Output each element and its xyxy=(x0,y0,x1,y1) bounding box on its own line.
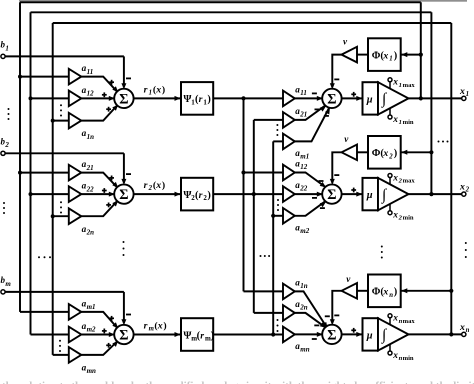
minus sign nu row 2 xyxy=(334,174,339,176)
node x2min terminal xyxy=(388,204,392,215)
svg-text:1: 1 xyxy=(389,56,392,63)
wire x1 bus to amp a21 xyxy=(18,171,69,175)
wire x1 bus to amp am1 xyxy=(20,311,69,313)
ellipsis middle channel xyxy=(260,255,271,257)
svg-text:m1: m1 xyxy=(87,303,96,311)
wire Phi row 1 to nu xyxy=(357,54,368,56)
svg-text:m: m xyxy=(149,326,154,333)
svg-text:x: x xyxy=(392,78,398,88)
svg-text:11: 11 xyxy=(87,68,94,76)
svg-text:mn: mn xyxy=(300,346,309,354)
wire right vertical xn feedback xyxy=(450,23,452,334)
node bm input terminal xyxy=(1,290,124,294)
label bm xyxy=(1,275,12,288)
label r1(x) xyxy=(144,84,166,96)
label Psim(rm) xyxy=(183,330,214,342)
minus sign a11 xyxy=(312,92,317,94)
wire left vertical bus x2 xyxy=(30,12,32,334)
wire x1 bus to amp a11 xyxy=(18,75,69,79)
svg-text:Σ: Σ xyxy=(327,327,336,343)
wire Psi2 output to a22 right xyxy=(213,193,283,195)
node junction x2/right vertical xyxy=(429,192,433,196)
block mu row 2 xyxy=(363,178,379,210)
svg-text:22: 22 xyxy=(86,185,95,193)
label a2n right xyxy=(295,299,308,312)
wire middle vertical v3 (Psim) xyxy=(272,141,274,334)
svg-text:x: x xyxy=(155,180,161,191)
svg-text:Σ: Σ xyxy=(327,91,336,107)
svg-text:n: n xyxy=(466,327,470,334)
ellipsis left inputs b1-b2 xyxy=(8,108,10,120)
svg-text:21: 21 xyxy=(86,164,94,172)
label a2n left xyxy=(82,224,95,237)
svg-text:mn: mn xyxy=(87,367,96,375)
wire am2 into summer xyxy=(295,201,327,216)
wire x2 bus to amp a22 xyxy=(29,192,69,196)
svg-text:21: 21 xyxy=(299,111,307,119)
wire x2 bus to amp a12 xyxy=(29,96,69,100)
amplifier a2n (left) xyxy=(69,208,82,224)
label x2 xyxy=(459,182,470,194)
ellipsis left amps groupm xyxy=(59,340,61,352)
label x2max xyxy=(392,173,415,184)
wire Psi1 output to a11 right xyxy=(213,97,283,99)
label a1n left xyxy=(82,128,95,141)
svg-text:max: max xyxy=(403,318,416,325)
amplifier a1n (left) xyxy=(69,113,82,129)
plus sign mu input row 2 xyxy=(351,188,356,193)
svg-text:22: 22 xyxy=(299,185,308,193)
ellipsis output column xyxy=(465,242,467,258)
wire left vertical bus x1 xyxy=(19,2,21,312)
svg-text:n: n xyxy=(389,292,393,299)
amplifier a22 (right) xyxy=(283,186,295,202)
wire top feedback bus 2 (x2) xyxy=(31,11,432,13)
svg-text:): ) xyxy=(211,330,214,341)
svg-text:m1: m1 xyxy=(300,153,309,161)
label Psi2(r2) xyxy=(183,190,210,202)
minus sign a2n xyxy=(314,324,319,326)
label amn right xyxy=(295,341,309,354)
ellipsis integrator column xyxy=(381,246,383,259)
svg-text:2: 2 xyxy=(465,187,470,194)
wire xn feedback into Phi xyxy=(401,288,454,293)
wire middle vertical v1 (Psi1) xyxy=(243,98,245,291)
svg-text:μ: μ xyxy=(366,94,373,105)
wire Phi row n to nu xyxy=(357,290,368,292)
wire am2 output to summer xyxy=(81,332,115,337)
svg-text:1: 1 xyxy=(399,119,402,126)
svg-text:1n: 1n xyxy=(87,133,95,141)
wire b2 to summer (minus) xyxy=(121,153,126,185)
node junction v1/a12 tap xyxy=(241,170,245,174)
node x2 output terminal xyxy=(462,192,466,196)
minus sign amn xyxy=(312,338,317,340)
svg-text:x: x xyxy=(459,86,465,97)
wire middle vertical v2 (Psi2) xyxy=(253,120,255,313)
svg-text:x: x xyxy=(382,287,388,298)
svg-text:): ) xyxy=(162,84,165,95)
wire a11 into summer xyxy=(295,96,323,101)
svg-text:2n: 2n xyxy=(299,304,308,312)
svg-text:the solution to the problem by: the solution to the problem by the modif… xyxy=(2,380,474,384)
wire bm to summer (minus) xyxy=(121,292,126,325)
label a21 left xyxy=(82,159,94,172)
label xn xyxy=(459,322,470,334)
block Phi(xn) xyxy=(368,275,401,308)
svg-text:m2: m2 xyxy=(87,326,96,334)
label nu row 2 xyxy=(344,134,349,144)
label a21 right xyxy=(295,106,307,119)
label a22 right xyxy=(295,180,308,193)
amplifier a22 (left) xyxy=(69,186,82,202)
svg-text:1n: 1n xyxy=(300,282,308,290)
amplifier am1 (right) xyxy=(283,134,295,150)
plus sign a21 xyxy=(109,176,114,181)
label am1 left xyxy=(82,299,96,312)
label x1max xyxy=(392,78,415,89)
minus sign b2 input xyxy=(126,173,131,175)
minus sign nu row n xyxy=(334,314,339,316)
node x2max terminal xyxy=(388,174,392,185)
svg-text:x: x xyxy=(392,115,398,125)
minus sign a21 xyxy=(315,108,320,110)
svg-text:1: 1 xyxy=(399,82,402,89)
label mu row 1 xyxy=(366,94,373,105)
op-amp summer U2 (left sigma) xyxy=(114,184,133,203)
svg-text:1: 1 xyxy=(466,91,469,98)
svg-text:r: r xyxy=(199,190,203,201)
svg-text:min: min xyxy=(403,215,414,222)
block Psi2 xyxy=(181,178,213,211)
amplifier a2n (right) xyxy=(283,305,295,321)
label Phi(x1) xyxy=(372,51,397,63)
svg-text:x: x xyxy=(392,211,398,221)
svg-text:x: x xyxy=(392,351,398,361)
wire v3 corner to amp am1 right xyxy=(273,140,283,142)
wire a12 into summer xyxy=(295,173,327,188)
minus sign am2 xyxy=(320,207,325,209)
wire top feedback bus 3 (xn) xyxy=(53,22,452,24)
op-amp summer U1 (left sigma) xyxy=(114,89,133,108)
svg-text:): ) xyxy=(207,190,210,201)
wire nu row 1 to summer (minus) xyxy=(330,55,342,90)
svg-text:Σ: Σ xyxy=(119,91,128,107)
wire a2n output to summer xyxy=(81,200,118,216)
block Phi(x2) xyxy=(368,136,401,169)
svg-text:m2: m2 xyxy=(300,227,309,235)
svg-text:): ) xyxy=(162,180,165,191)
wire r1 summer to Psi box xyxy=(134,96,181,101)
wire xn bus to amp amn xyxy=(53,354,69,356)
svg-text:r: r xyxy=(144,180,148,191)
wire a11 output to summer xyxy=(81,77,118,93)
svg-text:2: 2 xyxy=(388,153,393,160)
wire integrator output x2 xyxy=(409,193,462,195)
plus sign a12 xyxy=(102,92,107,97)
ellipsis left sigma column xyxy=(123,241,125,256)
wire b1 to summer (minus) xyxy=(121,56,126,89)
node junction Psi2/v2 xyxy=(252,192,256,196)
ellipsis right amps coln xyxy=(277,319,279,332)
node x1 output terminal xyxy=(462,96,466,100)
wire integrator output x1 xyxy=(409,97,462,99)
wire v2 corner to amp a2n right xyxy=(254,312,283,314)
plus sign a1n xyxy=(106,107,111,112)
wire rm summer to Psi box xyxy=(134,332,181,337)
amplifier amn (right) xyxy=(283,327,295,343)
op-amp summer right sigma row 1 xyxy=(322,89,341,108)
svg-text:Σ: Σ xyxy=(119,187,128,203)
label rm(x) xyxy=(144,320,167,332)
amplifier a12 (right) xyxy=(283,165,295,181)
amplifier a11 (left) xyxy=(69,69,82,85)
label a11 right xyxy=(295,84,307,97)
ellipsis left amps group1 xyxy=(60,104,62,116)
svg-text:r: r xyxy=(199,94,203,105)
wire amn into summer xyxy=(295,332,323,337)
wire right vertical x2 feedback xyxy=(430,12,432,194)
svg-text:2: 2 xyxy=(148,185,153,192)
node junction xn/right vertical xyxy=(449,332,453,336)
wire left vertical bus xn xyxy=(52,23,54,355)
label xnmin xyxy=(392,351,414,362)
block mu row 1 xyxy=(363,82,379,114)
wire nu row 2 to summer (minus) xyxy=(330,152,342,185)
svg-text:x: x xyxy=(382,51,388,62)
svg-text:r: r xyxy=(144,320,148,331)
op-amp summer right sigma row n xyxy=(322,325,341,344)
svg-text:x: x xyxy=(392,173,398,183)
wire xn bus to amp a2n xyxy=(51,214,69,218)
label Phi(x2) xyxy=(372,148,397,160)
scan edge artifact (grey strip) xyxy=(19,0,467,2)
wire a2n into summer xyxy=(295,313,327,328)
amplifier a21 (right) xyxy=(283,112,295,128)
svg-text:): ) xyxy=(207,94,210,105)
svg-text:x: x xyxy=(459,322,465,333)
svg-text:1: 1 xyxy=(149,90,152,97)
wire top feedback bus 1 (x1) xyxy=(20,1,421,3)
label x1 xyxy=(459,86,469,98)
label nu row 1 xyxy=(343,37,348,47)
minus sign a1n xyxy=(325,315,330,317)
label Psi1(r1) xyxy=(183,94,210,106)
ellipsis left columns xyxy=(38,256,51,258)
amplifier amn (left) xyxy=(69,347,82,363)
integrator row 1 xyxy=(378,82,409,114)
plus sign am2 xyxy=(102,329,107,334)
label a12 right xyxy=(295,159,308,172)
node x1max terminal xyxy=(388,78,392,89)
svg-text:max: max xyxy=(403,178,416,185)
minus sign am1 xyxy=(324,115,329,117)
svg-text:): ) xyxy=(394,287,397,298)
svg-text:x: x xyxy=(157,320,163,331)
svg-text:12: 12 xyxy=(300,163,308,171)
plus sign a2n xyxy=(106,203,111,208)
minus sign bm input xyxy=(126,314,131,316)
ellipsis left amps group2 xyxy=(60,201,62,213)
svg-text:): ) xyxy=(394,148,397,159)
minus sign b1 input xyxy=(126,77,131,79)
label a1n right xyxy=(295,277,308,290)
svg-text:μ: μ xyxy=(366,190,373,201)
minus sign a22 xyxy=(312,197,317,199)
svg-text:11: 11 xyxy=(300,89,307,97)
label x2min xyxy=(392,211,414,222)
label Phi(xn) xyxy=(372,287,397,299)
ellipsis right amps col1 xyxy=(276,124,278,136)
node xnmax terminal xyxy=(388,314,392,325)
amplifier nu row 2 xyxy=(342,145,358,161)
wire nu row n to summer (minus) xyxy=(330,291,342,325)
wire summer to mu row 2 xyxy=(342,192,363,197)
plus sign mu input row 1 xyxy=(351,92,356,97)
amplifier a12 (left) xyxy=(69,91,82,107)
svg-text:max: max xyxy=(403,82,416,89)
block Psim xyxy=(181,318,213,351)
node xnmin terminal xyxy=(388,344,392,355)
svg-text:min: min xyxy=(403,119,414,126)
wire v1 corner to amp a1n right xyxy=(244,290,284,292)
label a11 left xyxy=(82,63,94,76)
label amn left xyxy=(82,363,96,376)
minus sign a12 xyxy=(319,180,324,182)
plus sign mu input row n xyxy=(351,328,356,333)
amplifier nu row 1 xyxy=(342,47,358,63)
op-amp summer right sigma row 2 xyxy=(322,184,341,203)
wire Phi row 2 to nu xyxy=(357,151,368,153)
label am2 left xyxy=(82,321,96,334)
wire x1 feedback into Phi xyxy=(401,52,423,57)
wire right vertical x1 feedback xyxy=(420,2,422,98)
wire x2 bus to amp am2 xyxy=(31,334,69,336)
node b1 input terminal xyxy=(1,54,124,58)
amplifier a21 (left) xyxy=(69,165,82,181)
wire v2 corner to amp a21 right xyxy=(254,119,283,121)
svg-text:1: 1 xyxy=(5,44,8,52)
wire Psim output to amn right xyxy=(213,334,283,336)
caption (cut off at page edge) xyxy=(2,380,474,384)
amplifier a11 (right) xyxy=(283,91,295,107)
svg-text:m: m xyxy=(5,280,11,288)
node b2 input terminal xyxy=(1,151,124,155)
plus sign a11 xyxy=(109,80,114,85)
wire a12 output to summer xyxy=(81,96,115,101)
label mu row n xyxy=(366,330,373,341)
svg-text:x: x xyxy=(382,148,388,159)
wire xn bus to amp a1n xyxy=(51,119,69,123)
block Phi(x1) xyxy=(368,38,401,71)
label am2 right xyxy=(295,222,309,235)
ellipsis right amps col2 xyxy=(277,199,279,211)
svg-text:2: 2 xyxy=(4,141,9,149)
wire a21 into summer xyxy=(295,106,327,120)
node junction Psim/v3 xyxy=(271,332,275,336)
amplifier am1 (left) xyxy=(69,304,82,320)
plus sign a22 xyxy=(102,188,107,193)
wire a22 into summer xyxy=(295,192,323,197)
plus sign am1 xyxy=(109,316,114,321)
svg-text:Σ: Σ xyxy=(327,187,336,203)
svg-text:Σ: Σ xyxy=(119,328,128,344)
wire a22 output to summer xyxy=(81,192,115,197)
wire a1n into summer xyxy=(295,291,328,328)
label a12 left xyxy=(82,85,95,98)
label xnmax xyxy=(392,314,415,325)
svg-text:min: min xyxy=(403,355,414,362)
label x1min xyxy=(392,115,414,126)
label b2 xyxy=(1,137,10,150)
label nu row n xyxy=(346,274,351,284)
wire v1 tap to amp a12 right xyxy=(244,172,284,174)
ellipsis left inputs b2-bm xyxy=(3,202,5,214)
svg-text:12: 12 xyxy=(87,90,95,98)
wire r2 summer to Psi box xyxy=(134,192,181,197)
svg-text:r: r xyxy=(144,84,148,95)
node junction v3/am2 tap xyxy=(271,214,275,218)
ellipsis right verticals xyxy=(438,141,449,143)
svg-text:μ: μ xyxy=(366,330,373,341)
label mu row 2 xyxy=(366,190,373,201)
integrator row 2 xyxy=(378,178,409,210)
label b1 xyxy=(1,40,9,53)
label a22 left xyxy=(82,181,95,194)
amplifier am2 (right) xyxy=(283,208,295,224)
node junction x1/right vertical xyxy=(419,96,423,100)
block Psi1 xyxy=(181,82,213,115)
minus sign nu row 1 xyxy=(334,78,339,80)
svg-text:x: x xyxy=(392,314,398,324)
wire amn output to summer xyxy=(81,341,118,355)
node xn output terminal xyxy=(462,332,466,336)
node x1min terminal xyxy=(388,108,392,119)
op-amp summer Um (left sigma) xyxy=(114,325,133,344)
block mu row n xyxy=(363,318,379,350)
svg-text:): ) xyxy=(394,51,397,62)
amplifier am2 (left) xyxy=(69,327,82,343)
wire summer to mu row 1 xyxy=(342,96,363,101)
wire summer to mu row n xyxy=(342,332,363,337)
svg-text:2n: 2n xyxy=(86,228,95,236)
label am1 right xyxy=(295,148,309,161)
wire a1n output to summer xyxy=(81,105,118,121)
wire am1 output to summer xyxy=(81,312,118,329)
svg-text:r: r xyxy=(200,330,204,341)
amplifier nu row n xyxy=(342,283,358,299)
wire am1 into summer xyxy=(295,108,330,142)
wire x2 feedback into Phi xyxy=(401,150,434,155)
svg-text:x: x xyxy=(155,84,161,95)
svg-text:x: x xyxy=(459,182,465,193)
wire v3 tap to amp am2 right xyxy=(273,215,283,217)
wire integrator output xn xyxy=(409,333,462,335)
integrator row n xyxy=(378,318,409,350)
plus sign amn xyxy=(106,343,111,348)
label r2(x) xyxy=(144,180,166,192)
wire a21 output to summer xyxy=(81,173,118,188)
svg-text:): ) xyxy=(163,320,166,331)
node junction Psi1/v1 xyxy=(241,96,245,100)
amplifier a1n (right) xyxy=(283,284,295,300)
